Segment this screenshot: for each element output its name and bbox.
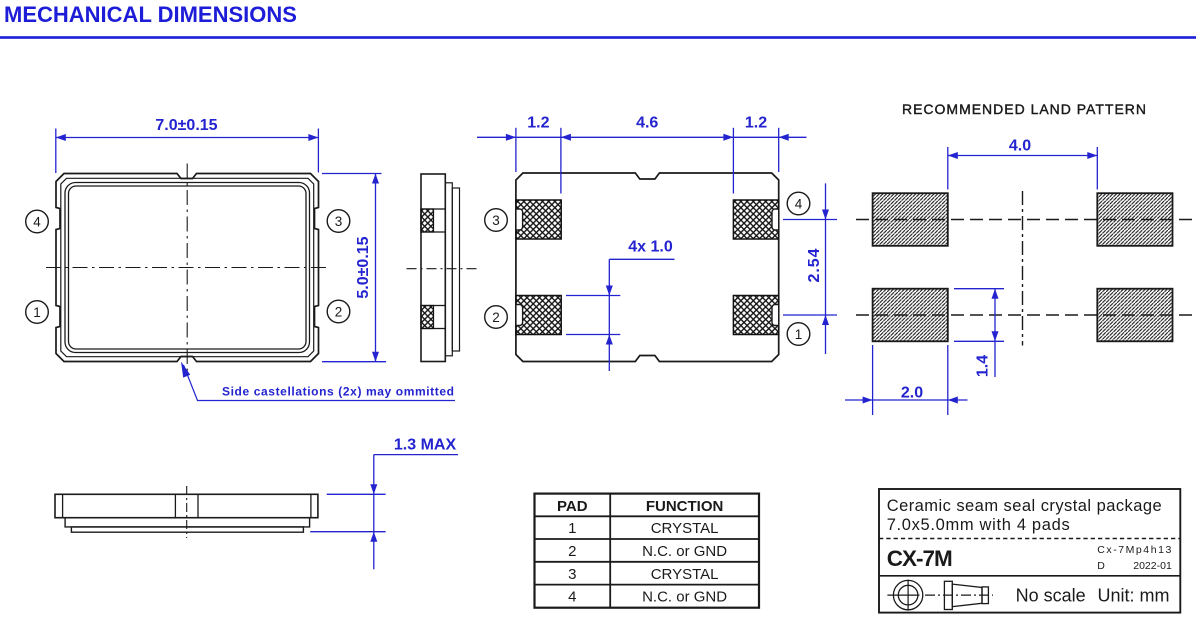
svg-text:Cx-7Mp4h13: Cx-7Mp4h13 bbox=[1097, 544, 1171, 556]
svg-text:5.0±0.15: 5.0±0.15 bbox=[355, 236, 372, 298]
svg-text:MECHANICAL DIMENSIONS: MECHANICAL DIMENSIONS bbox=[4, 2, 297, 27]
svg-text:1.4: 1.4 bbox=[975, 355, 992, 377]
svg-text:4x 1.0: 4x 1.0 bbox=[628, 239, 673, 256]
svg-text:1.2: 1.2 bbox=[527, 115, 549, 132]
svg-text:1: 1 bbox=[568, 520, 576, 537]
svg-text:2: 2 bbox=[568, 543, 576, 560]
svg-text:N.C. or GND: N.C. or GND bbox=[642, 589, 727, 606]
svg-text:Side castellations (2x) may om: Side castellations (2x) may ommitted bbox=[222, 384, 454, 398]
svg-text:2.0: 2.0 bbox=[901, 385, 923, 402]
svg-text:4: 4 bbox=[795, 196, 803, 211]
svg-text:4.6: 4.6 bbox=[636, 115, 658, 132]
svg-text:4: 4 bbox=[33, 214, 41, 229]
svg-text:2.54: 2.54 bbox=[806, 248, 823, 282]
svg-text:2022-01: 2022-01 bbox=[1133, 560, 1172, 572]
svg-text:3: 3 bbox=[568, 566, 576, 583]
svg-text:7.0x5.0mm with 4 pads: 7.0x5.0mm with 4 pads bbox=[887, 516, 1070, 534]
svg-text:1: 1 bbox=[795, 327, 803, 342]
svg-text:3: 3 bbox=[335, 214, 343, 229]
svg-text:3: 3 bbox=[492, 213, 500, 228]
svg-text:D: D bbox=[1097, 560, 1105, 572]
svg-text:No scale: No scale bbox=[1016, 586, 1086, 606]
svg-text:Unit: mm: Unit: mm bbox=[1098, 586, 1170, 606]
svg-text:CX-7M: CX-7M bbox=[887, 546, 953, 571]
svg-text:2: 2 bbox=[335, 304, 343, 319]
svg-text:CRYSTAL: CRYSTAL bbox=[651, 520, 719, 537]
svg-text:FUNCTION: FUNCTION bbox=[646, 498, 724, 515]
svg-text:RECOMMENDED LAND PATTERN: RECOMMENDED LAND PATTERN bbox=[902, 101, 1146, 117]
svg-text:CRYSTAL: CRYSTAL bbox=[651, 566, 719, 583]
svg-text:N.C. or GND: N.C. or GND bbox=[642, 543, 727, 560]
svg-text:1.2: 1.2 bbox=[745, 115, 767, 132]
svg-text:4: 4 bbox=[568, 589, 576, 606]
svg-text:PAD: PAD bbox=[557, 498, 588, 515]
svg-text:1: 1 bbox=[33, 305, 41, 320]
svg-text:1.3 MAX: 1.3 MAX bbox=[394, 437, 457, 454]
svg-text:7.0±0.15: 7.0±0.15 bbox=[155, 117, 217, 134]
svg-text:4.0: 4.0 bbox=[1009, 138, 1031, 155]
svg-text:2: 2 bbox=[492, 310, 500, 325]
svg-text:Ceramic seam seal crystal pack: Ceramic seam seal crystal package bbox=[887, 497, 1162, 515]
